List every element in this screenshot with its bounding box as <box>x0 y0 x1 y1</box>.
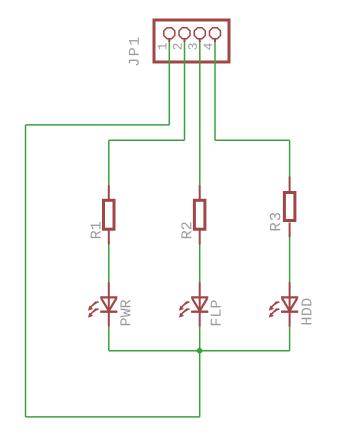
resistor R2 <box>194 185 205 244</box>
wire pin4 horizontal to column 3 <box>215 139 290 141</box>
pin 3 stub <box>199 39 201 42</box>
label JP1 <box>129 38 139 66</box>
label R2 <box>181 222 191 238</box>
wire pin2 horizontal to column 1 <box>109 139 185 141</box>
pin number 1 <box>158 43 167 49</box>
wire pin2 down <box>184 42 186 141</box>
wire bottom bus <box>109 350 290 352</box>
pin number 3 <box>188 43 197 49</box>
wire pin4 down <box>214 42 216 141</box>
wire bottom horizontal <box>26 416 200 418</box>
label HDD <box>302 299 312 325</box>
pin 3 pad <box>194 28 205 39</box>
label FLP <box>211 300 221 325</box>
wire R1 to LED PWR <box>108 245 110 283</box>
pin number 4 <box>204 43 213 49</box>
wire R2 to LED FLP <box>199 245 201 283</box>
pin 4 pad <box>210 28 221 39</box>
resistor R1 <box>104 185 115 244</box>
pin 1 stub <box>168 39 170 42</box>
resistor R3 <box>284 177 295 238</box>
LED PWR arrows <box>88 302 99 317</box>
label PWR <box>120 300 130 325</box>
wire junction riser <box>199 351 201 417</box>
wire LED PWR to bottom bus <box>108 326 110 350</box>
wire R3 to LED HDD <box>289 237 291 282</box>
wire top horizontal to left rail <box>26 124 170 126</box>
pin 4 stub <box>214 39 216 42</box>
label R3 <box>270 213 281 230</box>
wire pin1 down <box>168 42 170 125</box>
pin 1 pad <box>164 28 175 39</box>
label R1 <box>91 222 101 238</box>
LED PWR <box>100 282 117 326</box>
wire pin3 down to R2 <box>199 42 201 186</box>
wire column1 to R1 <box>108 140 110 185</box>
LED FLP arrows <box>179 302 190 317</box>
LED FLP <box>191 282 208 326</box>
LED HDD arrows <box>269 302 280 317</box>
wire column3 to R3 <box>289 140 291 177</box>
pin number 2 <box>173 43 182 49</box>
junction <box>196 347 204 355</box>
connector JP1 body <box>154 20 229 62</box>
LED HDD <box>281 282 298 326</box>
pin 2 stub <box>184 39 186 42</box>
wire left rail vertical <box>25 125 27 417</box>
pin 2 pad <box>179 28 190 39</box>
wire LED FLP to bottom bus <box>199 326 201 350</box>
wire LED HDD to bottom bus <box>289 326 291 350</box>
